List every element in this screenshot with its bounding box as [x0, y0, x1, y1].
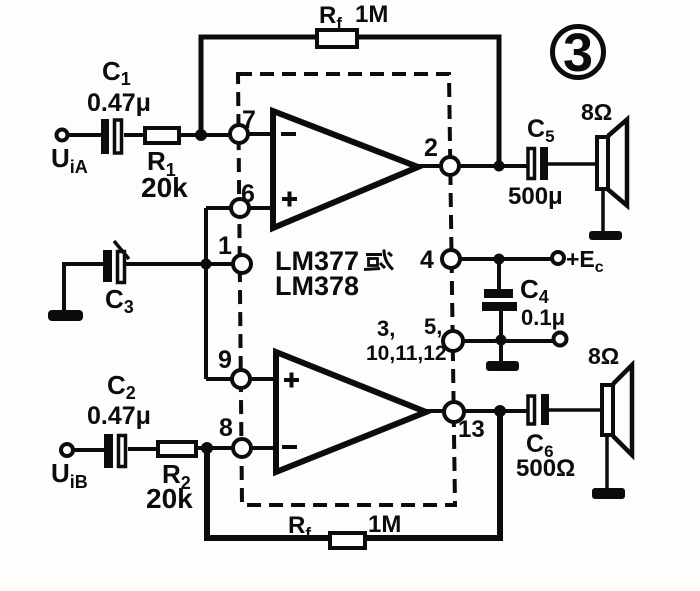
capacitor C2: [104, 434, 126, 468]
pin 9: [232, 370, 250, 388]
svg-text:8Ω: 8Ω: [588, 343, 619, 369]
node: C3 junction: [201, 259, 212, 270]
svg-text:20k: 20k: [141, 172, 188, 203]
svg-text:3,: 3,: [377, 316, 395, 341]
wire speaker B to ground: [605, 435, 609, 489]
pin 4: [442, 250, 460, 268]
svg-text:1: 1: [218, 232, 232, 260]
svg-text:8: 8: [219, 414, 233, 442]
svg-text:2: 2: [424, 134, 438, 162]
plus sign op-amp A: [282, 192, 297, 207]
wire pin5 rail: [463, 339, 553, 343]
pin 1: [233, 255, 251, 273]
node: output A junction: [494, 161, 505, 172]
figure number circled 3: [553, 23, 604, 83]
wire pin9 row: [206, 377, 276, 381]
wire C1 to R1: [124, 133, 145, 137]
capacitor C1: [101, 119, 122, 154]
wire op-amp B output to C6: [426, 409, 527, 413]
wire input A to C1: [68, 133, 101, 137]
svg-text:3: 3: [563, 23, 593, 83]
node: +Ec junction: [494, 254, 505, 265]
svg-text:0.47μ: 0.47μ: [87, 89, 151, 117]
wire op-amp A output to C5: [418, 164, 527, 168]
svg-text:1M: 1M: [355, 1, 388, 28]
terminal (pin5 rail): [554, 333, 567, 346]
ground (speaker B): [592, 488, 625, 499]
resistor Rf (top feedback): [317, 30, 357, 47]
pin 7: [230, 125, 248, 143]
pin 6: [231, 199, 249, 217]
svg-text:10,11,12: 10,11,12: [366, 342, 447, 365]
IC dashed outline: [238, 74, 455, 505]
capacitor C4: [482, 259, 517, 340]
wire C6 to speaker B: [549, 408, 602, 412]
svg-text:7: 7: [242, 106, 256, 134]
capacitor C6: [528, 394, 549, 425]
svg-text:9: 9: [218, 346, 232, 374]
wire junction to ground: [499, 340, 503, 361]
speaker B: [602, 365, 632, 455]
pin 2: [441, 157, 459, 175]
ground (C4): [486, 361, 519, 371]
svg-text:0.47μ: 0.47μ: [87, 402, 151, 430]
input terminal UiA: [57, 130, 68, 141]
svg-text:LM378: LM378: [275, 271, 359, 301]
wire C3 to junction: [126, 262, 206, 266]
speaker A: [597, 120, 627, 206]
wire input B to C2: [73, 448, 104, 452]
capacitor C5: [528, 147, 548, 180]
node: pin5 rail junction: [496, 335, 507, 346]
hand-drawn CJK glyph "huo" (or): [364, 250, 393, 270]
wire C5 to speaker A: [548, 162, 597, 166]
node: junction R2 / feedback B: [201, 442, 213, 454]
wire C2 to R2: [128, 447, 158, 451]
svg-text:1M: 1M: [368, 511, 401, 538]
svg-text:4: 4: [420, 246, 434, 274]
svg-text:20k: 20k: [146, 483, 193, 514]
pin 13: [444, 402, 464, 422]
wire pin4 to +Ec: [460, 257, 552, 261]
wire speaker A to ground: [601, 189, 605, 232]
wire R1 to pin 7: [179, 133, 231, 137]
resistor R2: [158, 442, 196, 456]
svg-text:6: 6: [241, 180, 255, 208]
wire pin7 to op-amp A: [248, 132, 273, 136]
node: output B junction: [494, 405, 506, 417]
svg-text:500μ: 500μ: [508, 183, 563, 210]
wire: feedback loop A (up from R1 junction, across top, down to output node): [201, 37, 499, 166]
minus sign op-amp A: [281, 132, 296, 136]
resistor R1: [145, 128, 179, 143]
wire pin1 to junction: [206, 262, 233, 266]
wire: left vertical bus (pin6 to pin9 through C3 node): [204, 208, 208, 379]
svg-text:500Ω: 500Ω: [516, 455, 575, 482]
wire pin6 row: from left vertical to op-amp A: [206, 206, 273, 210]
wire: feedback loop B (down from R2 junction, across bottom, up to output node B): [207, 411, 500, 538]
ground (speaker A): [589, 231, 622, 240]
terminal +Ec: [552, 252, 564, 264]
pin 3,5,10,11,12: [443, 331, 463, 351]
wire C3 to ground: [64, 262, 103, 312]
resistor Rf (bottom feedback): [330, 533, 365, 548]
wire pin8 row: [196, 446, 276, 450]
svg-text:13: 13: [458, 416, 485, 443]
plus sign op-amp B: [284, 373, 299, 388]
svg-text:0.1μ: 0.1μ: [521, 305, 565, 330]
capacitor C3: [103, 241, 129, 283]
op-amp A triangle: [273, 111, 418, 228]
pin 8: [233, 439, 251, 457]
minus sign op-amp B: [282, 445, 297, 449]
op-amp B triangle: [276, 352, 426, 472]
ground (C3): [48, 310, 83, 321]
input terminal UiB: [61, 444, 73, 456]
node: junction R1 / feedback A: [195, 129, 207, 141]
svg-text:5,: 5,: [424, 314, 442, 339]
svg-text:8Ω: 8Ω: [581, 99, 612, 125]
